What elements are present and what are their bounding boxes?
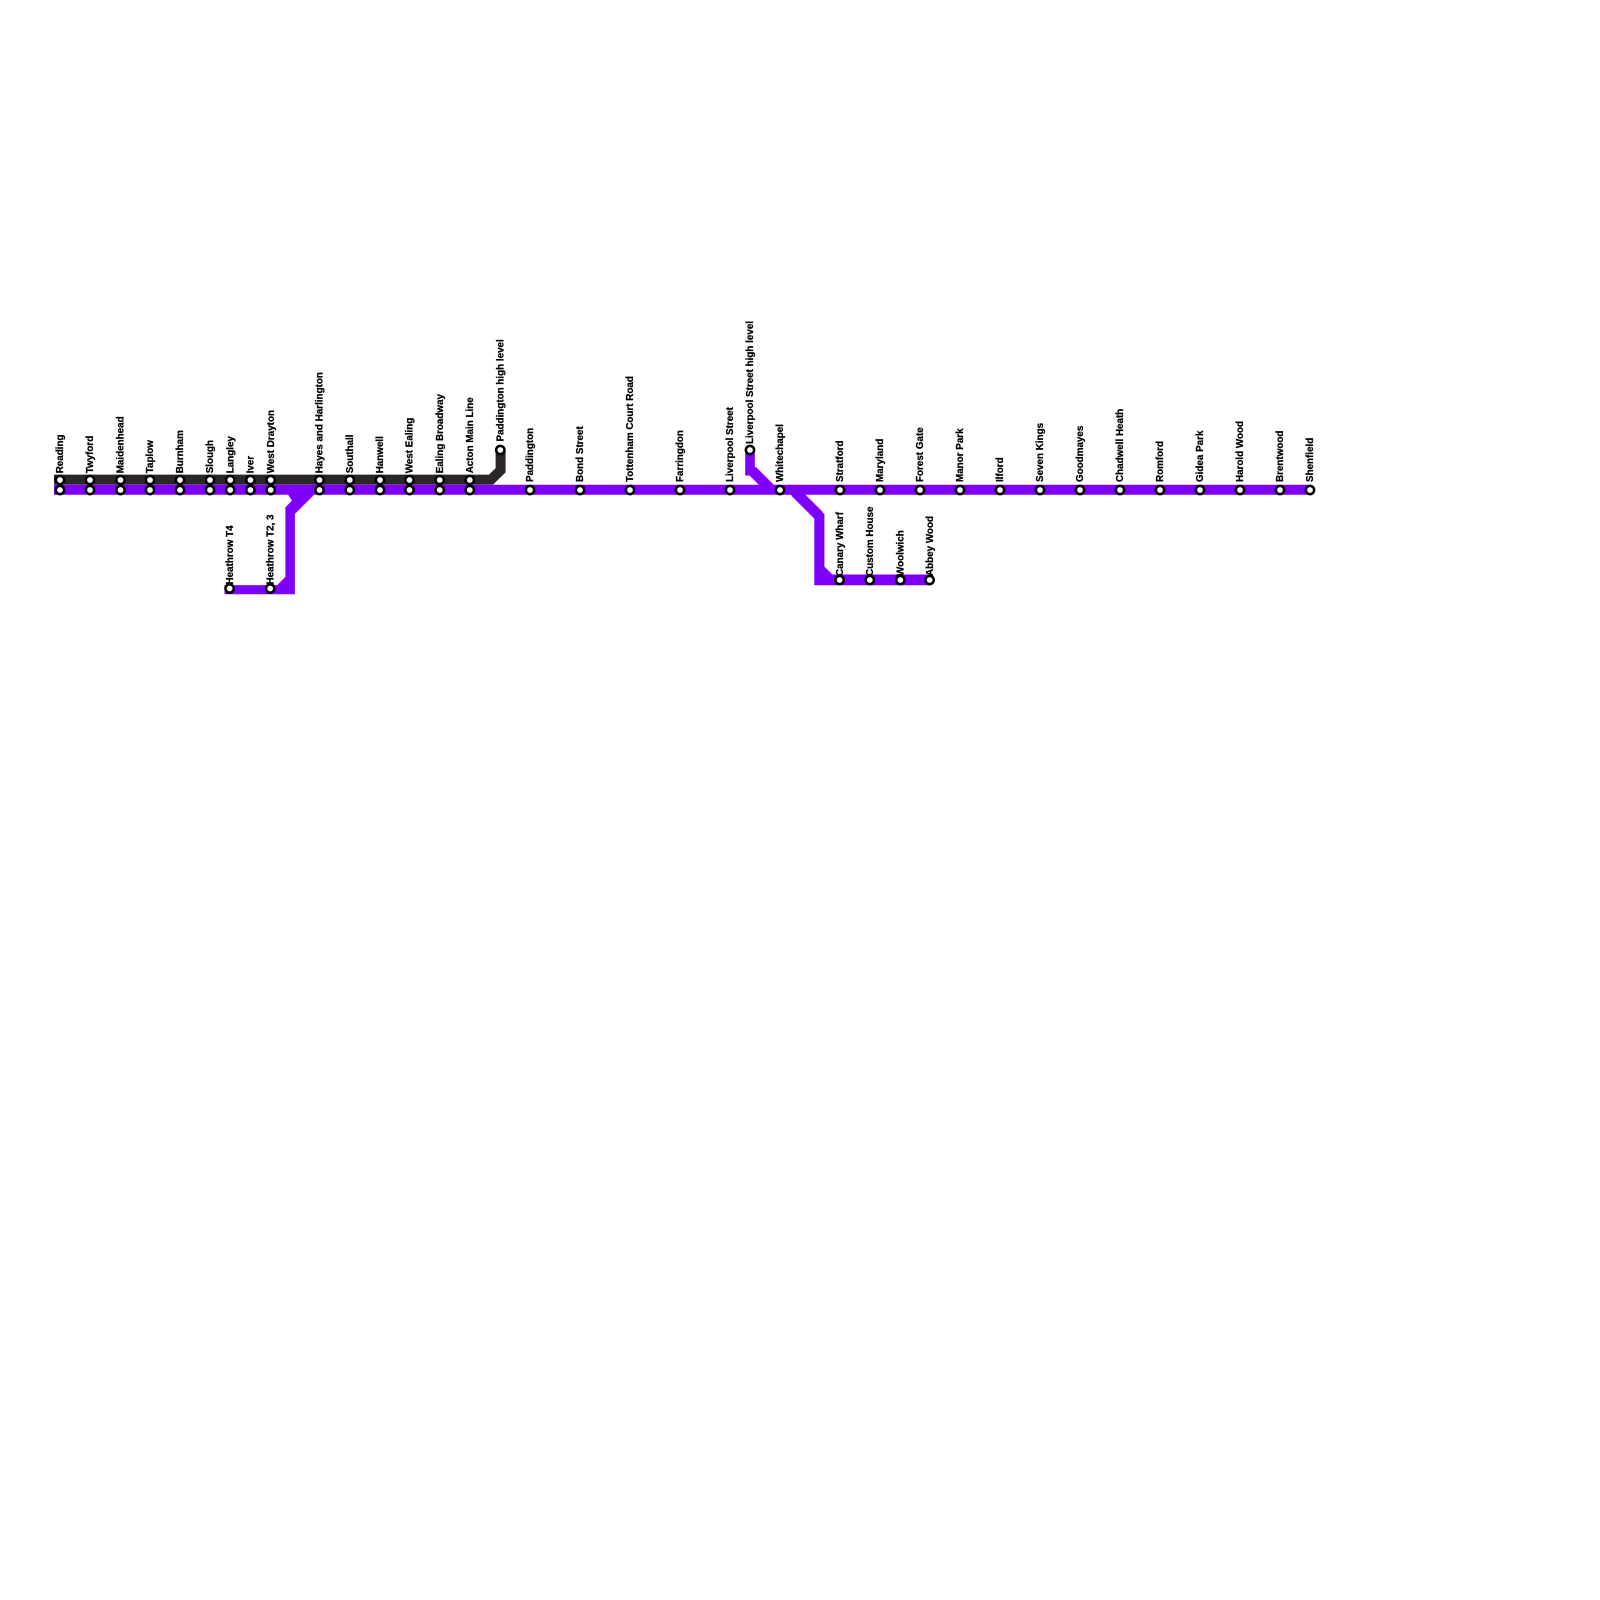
station Heathrow T2, 3 (265, 514, 276, 593)
purple branch: Heathrow (West Drayton junction to Heathrow T4 / T2,3) (225, 490, 314, 594)
svg-text:Ealing Broadway: Ealing Broadway (435, 393, 446, 473)
station Reading (55, 434, 66, 494)
svg-text:Custom House: Custom House (865, 506, 876, 576)
station Forest Gate (915, 427, 926, 494)
svg-text:Paddington: Paddington (525, 428, 536, 482)
svg-text:Paddington high level: Paddington high level (496, 339, 507, 442)
svg-text:Liverpool Street high level: Liverpool Street high level (745, 321, 756, 444)
svg-text:Whitechapel: Whitechapel (775, 424, 786, 482)
station Romford (1155, 441, 1166, 494)
station Harold Wood (1235, 421, 1246, 494)
station Iver (246, 456, 257, 495)
station Paddington high level (496, 339, 507, 454)
svg-text:Bond Street: Bond Street (575, 425, 586, 482)
station Stratford (835, 440, 846, 494)
svg-text:Twyford: Twyford (85, 436, 96, 474)
svg-text:Brentwood: Brentwood (1275, 431, 1286, 482)
svg-text:Manor Park: Manor Park (955, 428, 966, 482)
station Manor Park (955, 428, 966, 494)
station Acton Main Line (465, 397, 476, 494)
station Goodmayes (1075, 425, 1086, 494)
station West Ealing (405, 418, 416, 494)
station Whitechapel (775, 424, 786, 494)
station Canary Wharf (835, 511, 846, 584)
station Woolwich (896, 530, 907, 584)
station Maidenhead (116, 416, 127, 494)
station Burnham (175, 430, 186, 494)
station Paddington (525, 428, 536, 494)
station Chadwell Heath (1115, 409, 1126, 494)
station Maryland (875, 439, 886, 494)
station Ilford (995, 457, 1006, 494)
svg-text:Abbey Wood: Abbey Wood (925, 516, 936, 576)
svg-text:Shenfield: Shenfield (1305, 438, 1316, 482)
station Brentwood (1275, 431, 1286, 495)
station Ealing Broadway (435, 393, 446, 494)
svg-text:West Drayton: West Drayton (266, 410, 277, 473)
station Tottenham Court Road (625, 376, 636, 494)
svg-text:Liverpool Street: Liverpool Street (725, 406, 736, 482)
svg-text:Hayes and Harlington: Hayes and Harlington (315, 372, 326, 473)
station Heathrow T4 (225, 525, 236, 593)
station Farringdon (675, 430, 686, 494)
svg-text:Maidenhead: Maidenhead (116, 416, 127, 473)
station Shenfield (1305, 438, 1316, 494)
svg-text:Tottenham Court Road: Tottenham Court Road (625, 376, 636, 482)
purple main line: Reading to Shenfield (54, 485, 1311, 495)
station Abbey Wood (925, 516, 936, 584)
svg-text:Langley: Langley (225, 436, 236, 474)
svg-text:Heathrow T4: Heathrow T4 (225, 525, 236, 585)
station Hayes and Harlington (315, 372, 326, 494)
station Liverpool Street (725, 406, 736, 494)
station Twyford (85, 436, 96, 494)
svg-text:Romford: Romford (1155, 441, 1166, 482)
svg-text:Stratford: Stratford (835, 440, 846, 482)
station Taplow (145, 440, 156, 494)
svg-text:Maryland: Maryland (875, 439, 886, 482)
wire: magenta AA fringe under diagonals (281, 471, 828, 588)
svg-text:Heathrow T2, 3: Heathrow T2, 3 (265, 514, 276, 585)
svg-text:Canary Wharf: Canary Wharf (835, 511, 846, 576)
svg-text:Chadwell Heath: Chadwell Heath (1115, 409, 1126, 482)
svg-text:Gidea Park: Gidea Park (1195, 430, 1206, 482)
svg-text:Harold Wood: Harold Wood (1235, 421, 1246, 482)
svg-text:Goodmayes: Goodmayes (1075, 425, 1086, 482)
svg-text:Hanwell: Hanwell (375, 436, 386, 473)
svg-text:Reading: Reading (55, 434, 66, 473)
svg-text:Southall: Southall (345, 434, 356, 473)
svg-text:Farringdon: Farringdon (675, 430, 686, 482)
purple branch: Whitechapel junction to Abbey Wood (786, 490, 931, 585)
svg-text:Ilford: Ilford (995, 457, 1006, 482)
svg-text:Seven Kings: Seven Kings (1035, 422, 1046, 482)
svg-text:Woolwich: Woolwich (896, 530, 907, 576)
station Hanwell (375, 436, 386, 494)
station Langley (225, 436, 236, 495)
station Seven Kings (1035, 422, 1046, 494)
svg-text:Burnham: Burnham (175, 430, 186, 473)
dark line: Reading to Paddington high level (54, 451, 501, 480)
station Liverpool Street high level (745, 321, 756, 454)
purple spur: Liverpool Street high level (750, 452, 772, 490)
svg-text:Forest Gate: Forest Gate (915, 427, 926, 482)
station West Drayton (266, 410, 277, 494)
station Custom House (865, 506, 876, 584)
station Southall (345, 434, 356, 494)
station Slough (205, 440, 216, 494)
station Bond Street (575, 425, 586, 494)
svg-text:Taplow: Taplow (145, 440, 156, 474)
station Gidea Park (1195, 430, 1206, 494)
svg-text:Slough: Slough (205, 440, 216, 473)
svg-text:Iver: Iver (246, 456, 257, 474)
svg-text:West Ealing: West Ealing (405, 418, 416, 474)
svg-text:Acton Main Line: Acton Main Line (465, 397, 476, 474)
